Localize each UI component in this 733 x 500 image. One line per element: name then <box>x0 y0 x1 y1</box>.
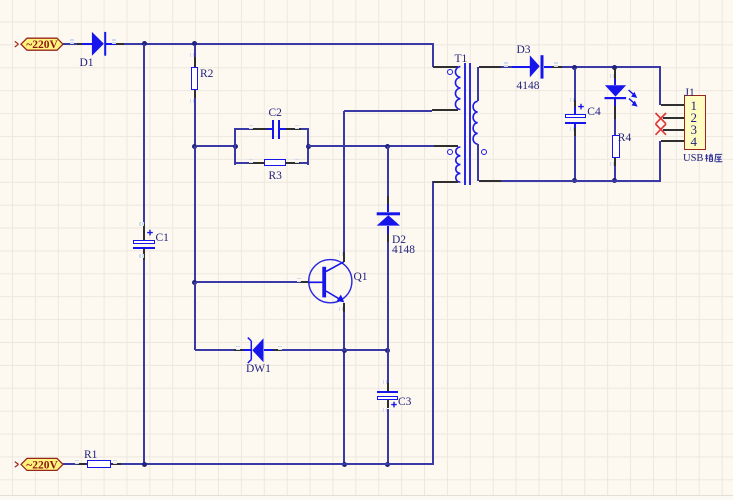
wire C4 bottom <box>574 136 576 182</box>
capacitor C1 positive plate <box>133 240 155 245</box>
J1 pin number 4 <box>691 135 698 149</box>
label D1 <box>80 57 94 69</box>
pin LED bottom (black) <box>614 106 616 119</box>
resistor R2 <box>191 67 198 90</box>
plus mark C4 <box>577 103 585 111</box>
plus mark C3 <box>390 401 398 409</box>
node emitter-DW1 junction <box>342 348 347 353</box>
pin DW1 anode (black) <box>234 349 243 351</box>
pin DW1 cathode (black) <box>273 349 282 351</box>
wire R2 to feedback row <box>194 98 196 146</box>
C2 right lead <box>280 128 286 130</box>
capacitor C3 negative plate <box>377 391 398 393</box>
wire DW1 row right <box>282 349 388 351</box>
wire D2 top <box>387 146 389 196</box>
pin R3 right (black) <box>286 162 301 164</box>
LED bottom lead <box>614 99 616 106</box>
label C3 <box>398 396 411 408</box>
pin T1 secondary bottom (black) <box>479 180 501 182</box>
wire secondary bottom rail <box>501 180 662 182</box>
node R2-feedback junction <box>192 144 197 149</box>
T1 secondary winding <box>468 98 482 148</box>
wire R2 top <box>194 45 196 57</box>
label R3 <box>269 170 282 182</box>
label C2 <box>269 107 282 119</box>
D1 cathode lead <box>106 43 116 45</box>
D3 anode lead <box>512 66 530 68</box>
wire base row <box>196 281 301 283</box>
capacitor C2 <box>272 120 274 140</box>
wire DW1 row left <box>195 349 235 351</box>
pin mark <box>297 278 301 280</box>
pin J1-3 (black) <box>663 129 684 131</box>
wire loop right vertical <box>307 128 309 165</box>
pin T1 winding2 top (black) <box>434 145 458 147</box>
wire top rail drop to T1 <box>432 43 434 67</box>
wire C2 branch left <box>235 128 251 130</box>
transistor Q1 <box>305 256 371 316</box>
wire C3 bottom <box>387 409 389 466</box>
wire port to R1 <box>63 463 77 465</box>
wire feedback row right <box>308 145 434 147</box>
wire rail rise to pin4 <box>659 141 661 182</box>
resistor R3 <box>264 159 286 166</box>
wire loop left vertical <box>234 128 236 165</box>
T1 core line 1 <box>464 63 466 185</box>
pin C2 right (black) <box>286 128 301 130</box>
label D3 <box>517 44 531 56</box>
pin D1 anode (black) <box>77 43 82 45</box>
pin Q1 base (black) <box>300 281 309 283</box>
pin Q1 collector (black) <box>343 252 345 262</box>
node bottom-C1 junction <box>142 462 147 467</box>
node feedback-D2 junction <box>385 144 390 149</box>
node loop left tap <box>233 144 238 149</box>
label C4 <box>587 106 600 118</box>
pin mark <box>504 62 508 64</box>
node loop right tap <box>306 144 311 149</box>
wire top rail <box>124 43 434 45</box>
node top-R2 junction <box>192 41 197 46</box>
DW1 cathode lead <box>264 349 273 351</box>
pin D3 cathode (black) <box>552 66 562 68</box>
pin mark <box>610 74 612 78</box>
wire R3 branch right <box>300 162 308 164</box>
wire port to D1 <box>63 43 77 45</box>
pin T1 winding1 bottom (black) <box>432 109 458 111</box>
pin R1 right (black) <box>111 463 122 465</box>
pin C2 left (black) <box>251 128 267 130</box>
pin T1 secondary top (black) <box>479 66 501 68</box>
wire feedback row left <box>197 145 236 147</box>
pin R2 top (black) <box>194 57 196 67</box>
pin D2 anode (black) <box>387 234 389 242</box>
pin C1 top (black) <box>143 224 145 240</box>
T1 primary winding 1 <box>447 63 464 113</box>
pin R2 bottom (black) <box>194 90 196 98</box>
diode D1 <box>90 30 108 58</box>
D1 anode lead <box>82 43 92 45</box>
svg-text:~220V: ~220V <box>26 39 58 51</box>
value 4148 of D3 <box>517 80 540 92</box>
pin C4 bottom (black) <box>574 128 576 136</box>
T1 secondary polarity dot <box>481 149 487 155</box>
label USB socket (USB插座) <box>683 153 703 164</box>
pin mark <box>249 125 253 127</box>
pin R1 left (black) <box>77 463 87 465</box>
node C4 bottom junction <box>572 178 577 183</box>
label J1 <box>685 87 695 99</box>
D2 cathode lead <box>387 204 389 212</box>
capacitor C1 negative plate <box>133 247 155 249</box>
wire C1 top <box>143 44 145 224</box>
wire C4 top <box>574 68 576 100</box>
pin C1 bottom (black) <box>143 249 145 261</box>
wire R4 bottom <box>614 166 616 181</box>
label R2 <box>200 68 213 80</box>
J1 pin number 3 <box>691 123 698 137</box>
label R1 <box>84 449 97 461</box>
capacitor C3 positive plate <box>377 396 398 401</box>
node base junction <box>192 280 197 285</box>
DW1 anode lead <box>243 349 251 351</box>
pin mark <box>75 460 79 462</box>
pin C4 top (black) <box>574 100 576 107</box>
pin J1-4 (black) <box>661 140 683 142</box>
wire C2 branch right <box>301 128 309 130</box>
T1 core line 2 <box>469 63 471 185</box>
wire bottom rail <box>121 463 434 465</box>
node C4 top junction <box>572 65 577 70</box>
pin C3 bottom (black) <box>387 400 389 408</box>
pin C3 top (black) <box>387 383 389 391</box>
pin R4 bottom (black) <box>614 158 616 166</box>
no-connect X on pin 3 <box>654 123 668 136</box>
svg-text:~220V: ~220V <box>26 459 58 471</box>
power port ~220V (top) <box>13 35 69 53</box>
wire C3 top <box>387 350 389 382</box>
wire rail drop to pin1 <box>659 66 661 105</box>
diode D3 (4148) <box>528 53 546 81</box>
wire C1 bottom <box>143 260 145 464</box>
label DW1 <box>246 363 271 375</box>
node C3-bottom rail junction <box>385 462 390 467</box>
pin Q1 emitter (black) <box>343 303 345 313</box>
pin mark <box>190 53 192 57</box>
pin J1-1 (black) <box>661 104 683 106</box>
pin mark <box>383 380 385 384</box>
wire base column to DW1 row <box>194 282 196 350</box>
wire T1 to D3 <box>501 66 513 68</box>
pin LED top (black) <box>614 68 616 79</box>
plus mark C1 <box>146 229 154 237</box>
pin mark <box>70 39 74 41</box>
sheet bottom boundary <box>0 495 733 496</box>
wire R2 column to base row <box>194 146 196 282</box>
zener diode DW1 <box>244 332 276 368</box>
J1 pin number 2 <box>691 111 698 125</box>
wire secondary top rail <box>562 66 661 68</box>
pin mark <box>249 159 253 161</box>
label D2 <box>392 234 406 246</box>
C2 left lead <box>267 128 272 130</box>
power port ~220V (bottom) <box>13 455 69 473</box>
pin D1 cathode (black) <box>116 43 124 45</box>
C4 bottom lead <box>574 124 576 129</box>
T1 winding1 polarity dot <box>447 69 453 75</box>
node emitter-bottom rail junction <box>342 462 347 467</box>
D2 anode lead <box>387 226 389 234</box>
label C1 <box>156 232 169 244</box>
pin J1-2 (black) <box>663 117 684 119</box>
node LED top junction <box>612 65 617 70</box>
LED top lead <box>614 79 616 86</box>
resistor R4 <box>612 135 620 158</box>
J1 pin number 1 <box>691 99 698 113</box>
wire T1 secondary bottom <box>477 144 479 181</box>
wire collector vertical <box>343 111 345 253</box>
pin mark <box>139 222 141 226</box>
connector J1 body <box>684 95 706 150</box>
no-connect X on pin 2 <box>654 112 668 125</box>
LED D4 <box>602 82 644 112</box>
label T1 <box>455 53 468 65</box>
pin R3 left (black) <box>249 162 264 164</box>
diode D2 (4148) <box>374 208 402 230</box>
wire T1 return drop <box>432 181 434 466</box>
wire LED to R4 <box>614 119 616 135</box>
capacitor C4 negative plate <box>565 122 586 124</box>
value 4148 of D2 <box>392 244 415 256</box>
C4 top lead <box>574 107 576 114</box>
pin mark <box>570 98 572 102</box>
wire T1 secondary top <box>477 67 479 102</box>
node DW1-D2col junction <box>385 348 390 353</box>
label Q1 <box>354 271 368 283</box>
node top-C1 junction <box>142 41 147 46</box>
wire D2 bottom <box>387 242 389 351</box>
wire collector to T1 <box>344 110 432 112</box>
label R4 <box>618 132 631 144</box>
T1 primary winding 2 <box>447 143 464 187</box>
node R4 bottom junction <box>612 178 617 183</box>
capacitor C4 positive plate <box>565 114 586 119</box>
wire emitter vertical <box>343 312 345 465</box>
pin mark <box>236 346 240 348</box>
wire R3 branch left <box>235 162 249 164</box>
pin T1 winding2 bottom (black) <box>433 181 458 183</box>
T1 winding2 polarity dot <box>447 149 453 155</box>
pin D2 cathode (black) <box>387 196 389 204</box>
resistor R1 <box>87 460 111 468</box>
pin T1 winding1 top (black) <box>433 66 458 68</box>
D3 cathode lead <box>544 66 553 68</box>
